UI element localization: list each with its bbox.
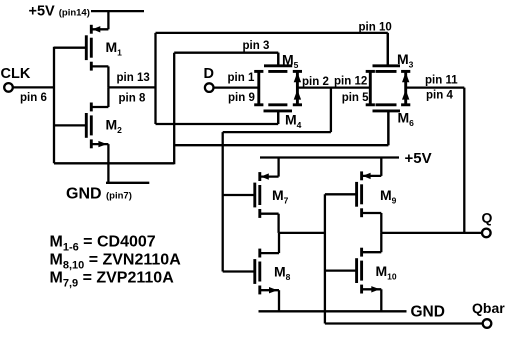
node pin12/pin5 side of TG2 — [369, 71, 372, 104]
wire Qbar output — [325, 322, 483, 324]
wire pin 10 line — [156, 32, 388, 34]
svg-text:M3: M3 — [397, 51, 414, 70]
svg-text:pin 8: pin 8 — [119, 93, 146, 105]
ground rail GND — [259, 310, 407, 312]
transistor M9 (ZVP2110A PMOS) — [325, 158, 381, 233]
wire CLK riser to pin 3 line — [173, 53, 175, 165]
svg-text:pin 5: pin 5 — [342, 92, 369, 104]
transistor M6 (CD4007 NMOS) — [373, 105, 401, 145]
svg-text:M8: M8 — [274, 263, 291, 282]
transmission gate PMOS M3 — [373, 33, 401, 72]
wire pin 2 to pin 12 — [297, 86, 370, 88]
svg-text:+5V (pin14): +5V (pin14) — [29, 3, 90, 19]
wire clkbar riser — [154, 33, 156, 124]
wire latch input horizontal — [223, 131, 331, 133]
input terminal D — [205, 83, 214, 92]
wire TG1 output riser — [330, 88, 332, 133]
transistor M1 (CD4007 PMOS) — [54, 11, 108, 87]
transmission gate PMOS M5 — [264, 53, 292, 72]
node pin 2 output of TG1 with substrate arrows — [296, 71, 299, 104]
svg-text:M7: M7 — [272, 187, 289, 206]
svg-text:pin 2: pin 2 — [302, 76, 329, 88]
wire pin 3 line — [174, 52, 278, 54]
transistor M7 (ZVP2110A PMOS) — [223, 158, 279, 233]
svg-text:pin 12: pin 12 — [334, 75, 367, 87]
svg-text:M6: M6 — [398, 110, 415, 129]
svg-text:+5V: +5V — [405, 150, 432, 167]
wire clkbar to M4 gate — [156, 123, 279, 125]
node D side of TG1 (pins 1,9) — [257, 71, 260, 104]
input terminal CLK — [4, 83, 13, 92]
svg-text:pin 1: pin 1 — [228, 72, 255, 84]
wire inverter1 output — [279, 232, 325, 234]
wire latch input bus M7/M8 gates — [222, 132, 224, 271]
supply rail +5V (latch) — [260, 156, 399, 158]
svg-text:GND (pin7): GND (pin7) — [66, 186, 132, 203]
wire pin 11 to Q feedback — [406, 86, 465, 88]
svg-text:Qbar: Qbar — [472, 300, 505, 316]
wire CLK input — [13, 86, 54, 88]
svg-text:pin 13: pin 13 — [117, 72, 150, 84]
output terminal Qbar — [483, 319, 492, 328]
svg-text:D: D — [204, 66, 214, 82]
svg-text:pin 3: pin 3 — [243, 40, 270, 52]
wire D input — [214, 86, 259, 88]
svg-text:M2: M2 — [106, 117, 123, 136]
svg-text:M10: M10 — [376, 263, 397, 282]
output terminal Q — [482, 229, 491, 238]
svg-text:pin 4: pin 4 — [426, 90, 453, 102]
svg-text:GND: GND — [411, 304, 445, 321]
svg-text:pin 11: pin 11 — [425, 74, 458, 86]
+5V rail (pin 14) — [91, 10, 144, 12]
svg-text:M7,9 = ZVP2110A: M7,9 = ZVP2110A — [50, 270, 175, 290]
svg-text:pin 6: pin 6 — [20, 92, 47, 104]
svg-text:pin 9: pin 9 — [228, 92, 255, 104]
svg-text:CLK: CLK — [1, 66, 31, 82]
node pin 11 / pin 4 output of TG2 with substrate arrows — [404, 71, 407, 104]
wire CLK to M6 gate — [174, 144, 388, 146]
svg-text:M5: M5 — [282, 52, 299, 71]
svg-text:M1-6 = CD4007: M1-6 = CD4007 — [50, 233, 156, 253]
wire Q feedback riser — [463, 88, 465, 233]
svg-text:M9: M9 — [380, 187, 397, 206]
transistor M4 (CD4007 NMOS) — [264, 105, 293, 124]
transistor M2 (CD4007 NMOS) — [54, 87, 108, 182]
wire Q output — [381, 232, 482, 234]
wire inverter output pins 13,8 — [108, 86, 155, 88]
wire CLK routing bottom — [54, 162, 174, 164]
svg-text:M8,10 = ZVN2110A: M8,10 = ZVN2110A — [50, 251, 182, 271]
wire CLK bus — [53, 47, 55, 164]
wire M9/M10 gate bus — [324, 194, 326, 323]
transistor M8 (ZVN2110A NMOS) — [223, 233, 279, 311]
svg-text:M4: M4 — [285, 112, 302, 131]
svg-text:M1: M1 — [106, 39, 123, 58]
svg-text:Q: Q — [482, 210, 493, 226]
transistor M10 (ZVN2110A NMOS) — [325, 233, 381, 311]
svg-text:pin 10: pin 10 — [359, 22, 392, 34]
ground stub GND (pin7) — [106, 182, 149, 184]
